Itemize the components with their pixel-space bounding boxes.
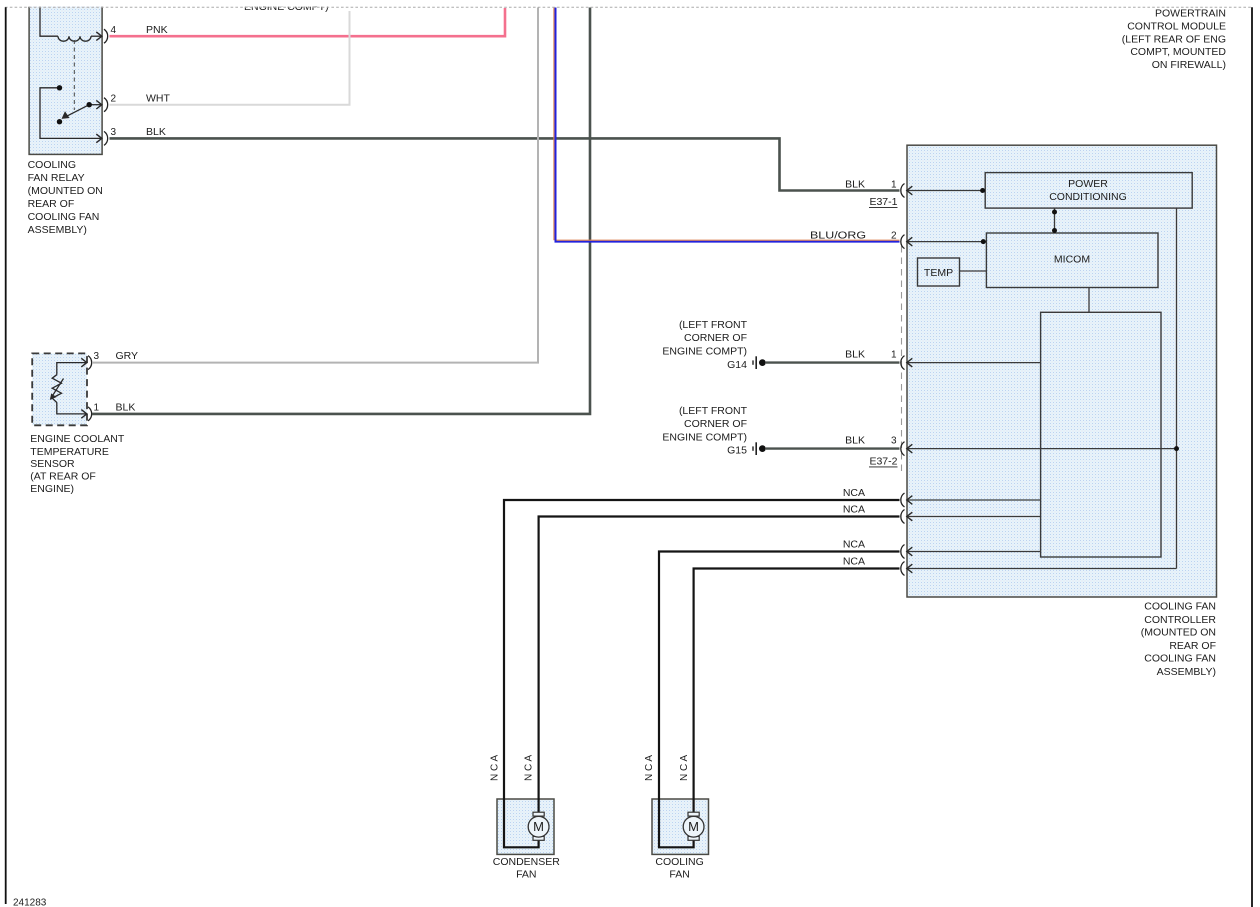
svg-text:FAN: FAN <box>669 868 689 880</box>
svg-text:CONDITIONING: CONDITIONING <box>1049 191 1127 203</box>
svg-text:(LEFT REAR OF ENG: (LEFT REAR OF ENG <box>1122 33 1226 45</box>
condenser fan motor M1 <box>528 812 549 840</box>
svg-text:241283: 241283 <box>13 898 47 907</box>
svg-text:BLK: BLK <box>845 178 865 190</box>
svg-text:BLK: BLK <box>116 402 136 414</box>
wire NCA 2 (condenser fan right) <box>539 517 900 813</box>
micom box <box>986 233 1158 288</box>
relay box (cooling fan relay, clipped at top) <box>29 2 102 154</box>
svg-text:COOLING: COOLING <box>655 856 703 868</box>
svg-text:WHT: WHT <box>146 92 170 104</box>
inner driver box <box>1041 312 1161 557</box>
wire BLK from relay pin 3 to controller pin 1 <box>110 138 900 190</box>
relay switch <box>40 88 102 139</box>
svg-text:ENGINE COMPT): ENGINE COMPT) <box>662 431 747 443</box>
svg-text:ASSEMBLY): ASSEMBLY) <box>28 224 87 236</box>
wire BLU/ORG to controller pin 2 <box>556 8 900 242</box>
wire WHT from relay pin 2 <box>110 11 350 105</box>
wire NCA 1 (condenser fan left) <box>504 500 900 847</box>
controller G14 pin connector <box>901 356 1041 370</box>
controller pin 3 internal wire <box>901 442 1179 456</box>
svg-text:NCA: NCA <box>843 556 865 568</box>
svg-text:4: 4 <box>111 25 117 36</box>
relay coil-switch dashed link <box>73 40 75 110</box>
connector E37 dashed line <box>901 246 903 475</box>
relay pin 3 connector <box>96 134 102 143</box>
svg-text:CONTROLLER: CONTROLLER <box>1144 614 1216 626</box>
svg-text:3: 3 <box>94 351 100 362</box>
svg-text:1: 1 <box>94 403 100 414</box>
vertical NCA labels at fans <box>489 755 689 781</box>
svg-text:3: 3 <box>891 436 897 447</box>
svg-text:BLK: BLK <box>845 349 865 361</box>
wire BLK from sensor pin 1 <box>92 8 590 414</box>
svg-text:(LEFT FRONT: (LEFT FRONT <box>679 319 748 331</box>
cooling fan motor M2 <box>683 812 704 840</box>
svg-text:COOLING FAN: COOLING FAN <box>28 211 100 223</box>
temp box <box>918 258 960 286</box>
ORG stripe <box>554 8 900 241</box>
wire NCA 4 (cooling fan right) <box>694 569 900 813</box>
svg-text:(AT REAR OF: (AT REAR OF <box>30 471 96 483</box>
svg-text:POWER: POWER <box>1068 178 1108 190</box>
svg-text:1: 1 <box>891 350 897 361</box>
relay label <box>28 159 103 236</box>
controller pin 1 internal wire <box>901 184 985 198</box>
svg-text:COMPT, MOUNTED: COMPT, MOUNTED <box>1130 46 1226 58</box>
sensor pin 3 connector <box>81 358 87 367</box>
svg-text:1: 1 <box>891 179 897 190</box>
svg-text:NCA: NCA <box>843 539 865 551</box>
svg-text:(LEFT FRONT: (LEFT FRONT <box>679 405 748 417</box>
svg-text:2: 2 <box>111 93 117 104</box>
sensor pin 1 connector <box>81 410 87 419</box>
sensor internal wire <box>57 363 87 414</box>
svg-text:N C A: N C A <box>523 755 534 781</box>
relay switch arm arrowhead <box>62 111 70 119</box>
svg-text:ENGINE): ENGINE) <box>30 483 74 495</box>
ground G15 <box>753 442 766 455</box>
relay switch contact dot upper <box>57 85 62 90</box>
wire PNK from relay pin 4 <box>110 8 506 36</box>
page right border <box>1251 7 1253 907</box>
svg-text:ENGINE COOLANT: ENGINE COOLANT <box>30 433 125 445</box>
sensor box (engine coolant temperature sensor) <box>32 353 87 425</box>
svg-text:REAR OF: REAR OF <box>28 198 75 210</box>
svg-text:G15: G15 <box>727 445 747 457</box>
svg-text:CONTROL MODULE: CONTROL MODULE <box>1127 20 1226 32</box>
svg-text:E37-1: E37-1 <box>869 196 897 208</box>
wire GRY from sensor pin 3 <box>92 8 538 363</box>
svg-text:COOLING FAN: COOLING FAN <box>1144 653 1216 665</box>
svg-text:CORNER OF: CORNER OF <box>684 418 747 430</box>
svg-text:COOLING FAN: COOLING FAN <box>1144 601 1216 613</box>
svg-text:N C A: N C A <box>679 755 690 781</box>
svg-text:M: M <box>533 819 544 834</box>
svg-text:N C A: N C A <box>489 755 500 781</box>
svg-text:BLK: BLK <box>146 126 166 138</box>
svg-text:GRY: GRY <box>116 350 139 362</box>
svg-text:M: M <box>688 819 699 834</box>
svg-text:BLU/ORG: BLU/ORG <box>810 230 866 242</box>
svg-text:NCA: NCA <box>843 504 865 516</box>
svg-text:BLK: BLK <box>845 435 865 447</box>
controller label <box>1141 601 1217 678</box>
svg-text:SENSOR: SENSOR <box>30 458 75 470</box>
powertrain control module label <box>1122 7 1227 71</box>
svg-text:CORNER OF: CORNER OF <box>684 332 747 344</box>
svg-text:FAN: FAN <box>516 868 536 880</box>
svg-text:ENGINE COMPT): ENGINE COMPT) <box>662 346 747 358</box>
svg-text:COOLING: COOLING <box>28 159 76 171</box>
svg-text:3: 3 <box>111 127 117 138</box>
thermistor arrow <box>53 379 64 396</box>
svg-text:(MOUNTED ON: (MOUNTED ON <box>28 185 103 197</box>
page left border <box>5 7 7 904</box>
svg-text:POWERTRAIN: POWERTRAIN <box>1155 7 1226 19</box>
svg-text:NCA: NCA <box>843 487 865 499</box>
svg-text:TEMP: TEMP <box>924 267 953 279</box>
relay coil <box>40 2 102 41</box>
controller box (cooling fan controller) <box>907 145 1217 597</box>
relay switch contact dot lower <box>57 119 62 124</box>
micom to driver link <box>1088 288 1090 313</box>
svg-text:FAN RELAY: FAN RELAY <box>28 172 85 184</box>
controller pin 2 internal wire <box>901 235 987 249</box>
power conditioning right rail <box>1176 208 1178 568</box>
page top dashed border <box>5 6 1253 8</box>
power conditioning box U1 <box>985 173 1192 209</box>
controller NCA pin internal wires <box>907 500 1177 569</box>
svg-text:PNK: PNK <box>146 24 168 36</box>
svg-text:G14: G14 <box>727 359 747 371</box>
svg-text:MICOM: MICOM <box>1054 254 1090 266</box>
svg-text:(MOUNTED ON: (MOUNTED ON <box>1141 627 1216 639</box>
svg-text:ON FIREWALL): ON FIREWALL) <box>1152 59 1226 71</box>
svg-text:N C A: N C A <box>644 755 655 781</box>
temp-micom link <box>960 270 987 272</box>
condenser fan box <box>497 799 554 854</box>
svg-text:E37-2: E37-2 <box>869 456 897 468</box>
cooling fan box <box>652 799 709 854</box>
wire NCA 3 (cooling fan left) <box>659 552 900 848</box>
wire BLK G14 to controller <box>766 361 900 363</box>
svg-text:ASSEMBLY): ASSEMBLY) <box>1157 666 1216 678</box>
svg-text:2: 2 <box>891 231 897 242</box>
relay pin 2 connector <box>96 100 102 109</box>
svg-text:REAR OF: REAR OF <box>1169 640 1216 652</box>
power conditioning to micom link <box>1054 208 1056 233</box>
ground G14 <box>753 356 766 369</box>
wire BLK G15 to controller <box>766 447 900 449</box>
resistor (thermistor) <box>52 375 61 403</box>
svg-text:TEMPERATURE: TEMPERATURE <box>30 446 109 458</box>
relay pin 4 connector <box>96 32 102 41</box>
svg-text:CONDENSER: CONDENSER <box>493 856 561 868</box>
relay switch contact dot movable <box>87 102 92 107</box>
sensor label <box>30 433 125 495</box>
